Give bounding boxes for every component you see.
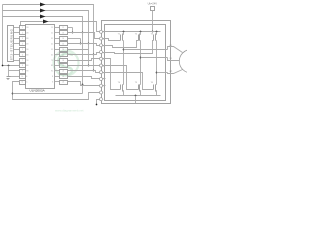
wire power drop [152, 11, 154, 32]
wire row10 feed [9, 76, 20, 78]
pin stub R10 [55, 76, 60, 78]
power terminal [151, 7, 155, 11]
wire join34 [80, 39, 82, 44]
svg-text:9B: 9B [26, 71, 29, 73]
svg-text:1C: 1C [51, 27, 54, 29]
svg-text:T2: T2 [135, 33, 138, 35]
wire net4 top [21, 22, 100, 32]
svg-text:15: 15 [62, 43, 64, 45]
pin stub R1 [55, 27, 60, 29]
svg-text:3C: 3C [51, 38, 54, 40]
junction dot net3-row2 [82, 32, 84, 34]
pin stub R2 [55, 32, 60, 34]
pin box L4 [20, 42, 26, 46]
connector X1 [8, 26, 14, 62]
wire net2 top [3, 11, 89, 44]
pin stub R11 [55, 81, 60, 83]
diode D1 [40, 3, 46, 7]
pin box R11 [60, 81, 68, 85]
wire X1 pin2 [14, 32, 20, 34]
transistor T2 [140, 32, 142, 35]
transistor T5 [139, 85, 141, 92]
svg-text:-: - [103, 99, 104, 101]
junction dot phase1 [123, 49, 125, 51]
svg-text:16: 16 [62, 49, 64, 51]
svg-text:T5: T5 [135, 82, 138, 84]
pin stub R8 [55, 65, 60, 67]
svg-text:9C: 9C [51, 71, 54, 73]
svg-text:5B: 5B [26, 49, 29, 51]
svg-text:ULN2003A: ULN2003A [30, 89, 46, 93]
junction dot net2-row8 [88, 65, 90, 67]
svg-text:-: - [103, 92, 104, 94]
wire top rail [103, 31, 161, 33]
wire X1 pin6 [14, 54, 20, 56]
node T4 [100, 51, 103, 54]
pin box R8 [60, 64, 68, 68]
wire leg2 mid [140, 41, 142, 85]
node GND-bus vertical [2, 5, 4, 66]
wire phase3 [157, 72, 168, 74]
svg-text:T4: T4 [118, 82, 121, 84]
svg-text:7: 7 [22, 60, 23, 62]
node T11 [100, 98, 103, 101]
pin box R7 [60, 59, 68, 63]
junction dot bus [8, 65, 10, 67]
wire W1 out [168, 70, 183, 74]
pin box R3 [60, 37, 68, 41]
svg-text:11: 11 [21, 82, 23, 84]
pin box L6 [20, 53, 26, 57]
wire row11 [68, 82, 100, 86]
svg-text:21: 21 [62, 76, 64, 78]
wire t8 stub [103, 85, 106, 87]
diode D3 [40, 15, 46, 19]
node T3 [100, 44, 103, 47]
svg-text:20: 20 [62, 71, 64, 73]
junction dot phase2 [140, 57, 142, 59]
svg-text:ST3-STEUERUNG: ST3-STEUERUNG [9, 29, 13, 61]
wire V1 out [168, 58, 180, 61]
junction dot rail-corner [2, 65, 4, 67]
wire brail drop [135, 96, 137, 104]
node T2 [100, 37, 103, 40]
pin box R9 [60, 70, 68, 74]
junction dot power [152, 31, 154, 33]
svg-text:17: 17 [62, 54, 64, 56]
svg-text:19: 19 [62, 65, 64, 67]
transistor T3 [156, 32, 158, 35]
wire t7 stub [103, 78, 106, 80]
wire row3 [68, 38, 81, 40]
diode D2 [40, 9, 46, 13]
svg-text:6: 6 [22, 54, 23, 56]
junction dot join12 [72, 32, 74, 34]
transistor T6 [155, 85, 157, 92]
node T8 [100, 77, 103, 80]
svg-text:4B: 4B [26, 43, 29, 45]
svg-text:T6: T6 [151, 82, 154, 84]
module outer box [102, 21, 171, 104]
svg-text:18: 18 [62, 60, 64, 62]
pin box L2 [20, 31, 26, 35]
node T1 [100, 30, 103, 33]
svg-text:5: 5 [22, 49, 23, 51]
transistor T1 [123, 32, 125, 35]
svg-text:Ub=24V: Ub=24V [148, 2, 158, 6]
wire net2 ext [88, 44, 90, 66]
transistor T4 [122, 85, 124, 92]
wire mid bottom [13, 93, 83, 95]
node T9 [100, 84, 103, 87]
wire row8 [68, 65, 100, 67]
svg-text:U1: U1 [170, 45, 172, 47]
wire gate T3 [103, 41, 154, 54]
pin stub R6 [55, 54, 60, 56]
wire X1 pin7 [14, 60, 20, 62]
junction dot join34 [80, 43, 82, 45]
node T7 [100, 71, 103, 74]
svg-text:7B: 7B [26, 60, 29, 62]
svg-text:10: 10 [21, 76, 23, 78]
motor M1 [179, 50, 202, 73]
svg-text:1B: 1B [26, 27, 29, 29]
svg-text:4C: 4C [51, 43, 54, 45]
svg-text:www.diagramweb.net: www.diagramweb.net [55, 109, 84, 113]
wire gate T6 [103, 73, 154, 90]
pin box L8 [20, 64, 26, 68]
junction dot tee [12, 93, 14, 95]
wire leg3 mid [156, 41, 158, 85]
wire row10 [68, 77, 100, 79]
wire row6 [68, 53, 100, 55]
pin box R10 [60, 75, 68, 79]
pin box L3 [20, 37, 26, 41]
svg-text:5C: 5C [51, 49, 54, 51]
wire row1 [68, 27, 73, 29]
pin box L10 [20, 75, 26, 79]
wire phase2 [141, 57, 168, 59]
module inner box [105, 25, 166, 101]
op-amp U1 body [26, 25, 55, 89]
node T5 [100, 57, 103, 60]
svg-text:13: 13 [62, 33, 64, 35]
wire net1 top [3, 5, 94, 55]
wire net3 top [3, 17, 83, 33]
svg-text:14: 14 [62, 38, 64, 40]
wire gate T2 [103, 41, 139, 48]
svg-text:2B: 2B [26, 33, 29, 35]
wire row2 [68, 33, 100, 39]
pin stub R5 [55, 49, 60, 51]
wire row9 feed [9, 70, 20, 72]
svg-text:G: G [52, 82, 54, 84]
pin box R5 [60, 48, 68, 52]
wire row11L [13, 82, 100, 100]
wire net3 ext [82, 33, 84, 85]
svg-text:6C: 6C [51, 54, 54, 56]
wire ground rail [3, 65, 20, 67]
wire row5 [68, 49, 89, 51]
wire X1 pin5 [14, 49, 20, 51]
svg-text:s: s [103, 79, 104, 81]
svg-text:22: 22 [62, 82, 64, 84]
junction dot net1-row6 [93, 54, 95, 56]
pin box L9 [20, 70, 26, 74]
ground [8, 76, 10, 78]
wire leg1 mid [123, 41, 125, 85]
diode D4 [43, 20, 49, 24]
svg-text:8B: 8B [26, 65, 29, 67]
pin box L11 [20, 81, 26, 85]
pin box R4 [60, 42, 68, 46]
svg-text:K: K [52, 76, 54, 78]
svg-text:3: 3 [22, 38, 23, 40]
pin box L7 [20, 59, 26, 63]
wire gate T5 [103, 66, 139, 90]
pin stub R3 [55, 38, 60, 40]
svg-text:C: C [26, 82, 28, 84]
wire gate T1 [103, 39, 121, 41]
wire X1 pin1 [14, 27, 20, 29]
wire U1 out [168, 47, 183, 53]
wire ground drop [8, 66, 10, 77]
svg-text:2: 2 [22, 33, 23, 35]
junction dot net2-row4 [88, 43, 90, 45]
junction dot net1-row9 [93, 70, 95, 72]
junction dot phase3 [156, 72, 158, 74]
junction dot rail3 [156, 31, 158, 33]
junction dot net3-c9 [82, 84, 84, 86]
svg-text:E: E [26, 76, 28, 78]
svg-text:9: 9 [22, 71, 23, 73]
svg-text:6B: 6B [26, 54, 29, 56]
pin stub R4 [55, 43, 60, 45]
svg-text:4: 4 [22, 43, 23, 45]
svg-text:3B: 3B [26, 38, 29, 40]
wire gate T4 [103, 59, 121, 90]
wire net3 drop [82, 85, 84, 94]
junction dot brail [135, 95, 137, 97]
wire row7 [68, 59, 100, 61]
pin box R6 [60, 53, 68, 57]
svg-text:12: 12 [62, 27, 64, 29]
svg-text:1: 1 [22, 27, 23, 29]
wire phase1 [124, 49, 168, 51]
wire X1 pin4 [14, 43, 20, 45]
wire c11 stub [97, 100, 100, 105]
pin stub R9 [55, 70, 60, 72]
svg-text:8: 8 [22, 65, 23, 67]
pin stub R7 [55, 60, 60, 62]
wire X1 pin3 [14, 38, 20, 40]
pin box R1 [60, 26, 68, 30]
pin box R2 [60, 31, 68, 35]
pin box L1 [20, 26, 26, 30]
wire row4 [68, 44, 100, 46]
junction dot end [96, 104, 98, 106]
junction dot rail1 [123, 31, 125, 33]
svg-text:2C: 2C [51, 33, 54, 35]
wire bottom rail [116, 95, 161, 97]
wire join12 [72, 28, 74, 33]
wire row9 [68, 71, 100, 73]
node T10 [100, 91, 103, 94]
decor [54, 51, 79, 76]
svg-text:W1: W1 [170, 71, 173, 73]
junction dot rail2 [140, 31, 142, 33]
pin box L5 [20, 48, 26, 52]
wire net1 ext [93, 55, 95, 71]
svg-text:V1: V1 [170, 58, 172, 60]
node T6 [100, 64, 103, 67]
